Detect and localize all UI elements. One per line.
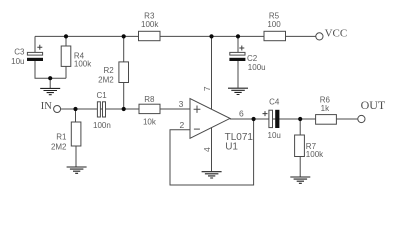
svg-text:R8: R8 [144,95,155,104]
svg-text:4: 4 [202,147,212,152]
svg-text:U1: U1 [225,141,238,152]
svg-text:IN: IN [41,101,52,112]
svg-text:C4: C4 [269,98,280,107]
svg-text:10k: 10k [143,117,157,126]
svg-text:100n: 100n [93,121,111,130]
svg-text:100k: 100k [141,20,159,29]
svg-text:2M2: 2M2 [98,76,114,85]
svg-text:100k: 100k [74,60,92,69]
svg-text:C1: C1 [97,91,108,100]
svg-text:C2: C2 [247,54,258,63]
svg-text:3: 3 [179,99,184,109]
svg-text:C3: C3 [14,48,25,57]
svg-text:7: 7 [202,86,212,91]
svg-text:VCC: VCC [325,28,348,40]
svg-text:R2: R2 [103,66,114,75]
svg-text:2: 2 [179,120,184,130]
svg-text:100: 100 [267,20,281,29]
svg-text:100u: 100u [248,63,266,72]
svg-text:10u: 10u [11,57,24,66]
svg-text:1k: 1k [321,104,330,113]
svg-text:6: 6 [239,109,244,119]
svg-text:10u: 10u [268,131,281,140]
svg-text:OUT: OUT [361,98,386,112]
svg-text:2M2: 2M2 [51,143,67,152]
svg-text:100k: 100k [306,150,324,159]
svg-text:R1: R1 [56,132,67,141]
